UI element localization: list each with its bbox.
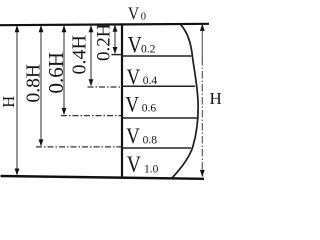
svg-text:0.4: 0.4 [143,75,158,87]
svg-text:0.2H: 0.2H [94,23,115,61]
svg-text:0.6H: 0.6H [44,52,68,93]
svg-text:0: 0 [141,12,146,23]
svg-text:H: H [0,96,18,108]
svg-text:0.2: 0.2 [141,43,156,55]
svg-text:0.8H: 0.8H [24,64,45,102]
svg-text:V: V [127,152,142,178]
svg-text:0.6: 0.6 [142,102,157,114]
svg-text:0.8: 0.8 [143,134,158,146]
svg-text:0.4H: 0.4H [69,35,91,74]
svg-text:V: V [126,93,140,117]
svg-text:V: V [127,65,141,89]
svg-text:V: V [128,3,139,23]
svg-text:1.0: 1.0 [144,163,159,175]
svg-text:V: V [126,125,140,149]
svg-text:H: H [210,89,222,108]
